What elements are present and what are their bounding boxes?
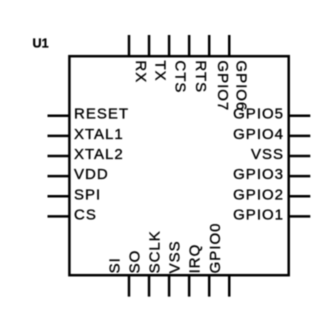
svg-text:RX: RX [132, 60, 149, 83]
svg-text:GPIO3: GPIO3 [233, 166, 284, 183]
pin wire RTS (top pin 4) [188, 35, 191, 56]
svg-text:XTAL1: XTAL1 [74, 126, 124, 143]
svg-text:RESET: RESET [74, 106, 129, 123]
svg-text:CTS: CTS [172, 60, 189, 93]
pin wire GPIO3 (right pin 4) [289, 175, 311, 178]
pin wire SPI (left pin 5) [48, 195, 70, 198]
pin wire VSS (bottom pin 4) [188, 275, 191, 296]
svg-text:VSS: VSS [167, 240, 184, 273]
svg-text:GPIO1: GPIO1 [233, 206, 284, 223]
svg-text:TX: TX [151, 60, 168, 81]
pin wire GPIO4 (right pin 2) [289, 135, 311, 138]
svg-text:GPIO2: GPIO2 [233, 186, 284, 203]
pin wire IRQ (bottom pin 5) [208, 275, 211, 296]
svg-text:SI: SI [107, 257, 124, 273]
svg-text:VDD: VDD [74, 166, 109, 183]
pin wire GPIO0 (bottom pin 6) [228, 275, 231, 296]
pin wire SO (bottom pin 2) [148, 275, 151, 296]
pin wire GPIO2 (right pin 5) [289, 195, 311, 198]
pin wire XTAL1 (left pin 2) [48, 135, 70, 138]
svg-text:RTS: RTS [192, 60, 209, 93]
svg-text:U1: U1 [33, 37, 49, 51]
pin wire TX (top pin 2) [148, 35, 151, 56]
svg-text:SCLK: SCLK [147, 230, 164, 273]
svg-text:GPIO6: GPIO6 [233, 60, 250, 111]
pin wire SI (bottom pin 1) [128, 275, 131, 296]
svg-text:VSS: VSS [251, 146, 284, 163]
pin wire RX (top pin 1) [128, 35, 131, 56]
pin wire RESET (left pin 1) [48, 114, 70, 117]
svg-text:XTAL2: XTAL2 [74, 146, 124, 163]
pin wire CTS (top pin 3) [168, 35, 171, 56]
pin wire VDD (left pin 4) [48, 175, 70, 178]
svg-text:GPIO5: GPIO5 [233, 106, 284, 123]
pin wire GPIO6 (top pin 6) [228, 35, 231, 56]
svg-text:IRQ: IRQ [187, 244, 204, 274]
svg-text:GPIO4: GPIO4 [233, 126, 284, 143]
svg-text:GPIO0: GPIO0 [207, 223, 224, 274]
pin wire GPIO1 (right pin 6) [289, 215, 311, 218]
svg-text:SPI: SPI [74, 186, 101, 203]
svg-text:GPIO7: GPIO7 [214, 60, 231, 111]
svg-text:SO: SO [127, 250, 144, 274]
IC body U1 [69, 56, 288, 275]
svg-text:CS: CS [74, 206, 97, 223]
pin wire GPIO7 (top pin 5) [208, 35, 211, 56]
pin wire XTAL2 (left pin 3) [48, 155, 70, 158]
pin wire VSS (right pin 3) [289, 155, 311, 158]
pin wire SCLK (bottom pin 3) [168, 275, 171, 296]
pin wire GPIO5 (right pin 1) [289, 114, 311, 117]
pin wire CS (left pin 6) [48, 215, 70, 218]
